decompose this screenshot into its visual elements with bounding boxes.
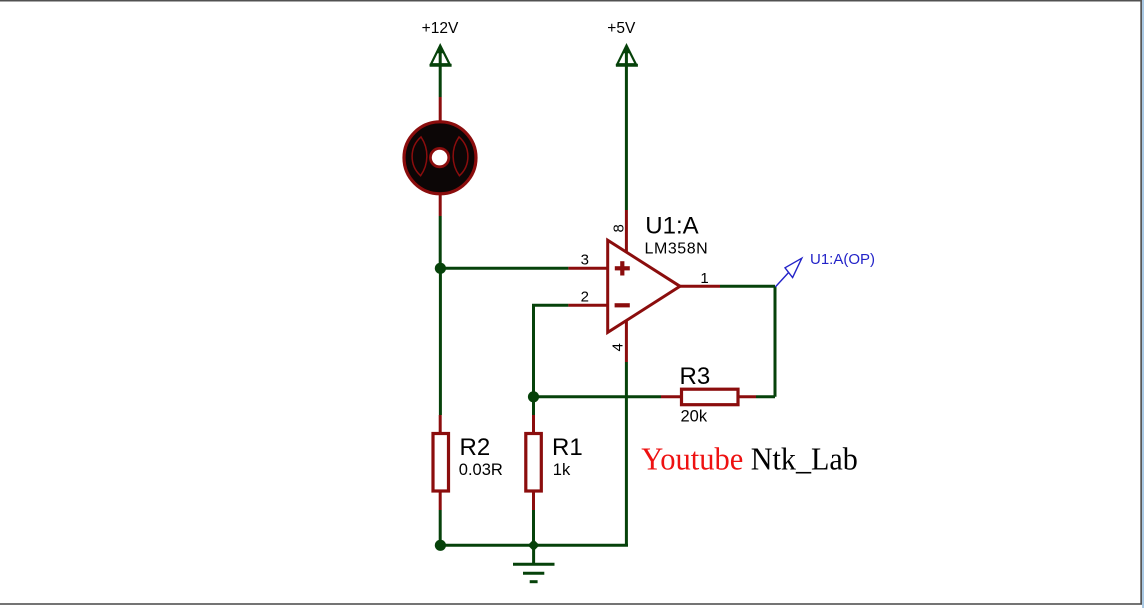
svg-text:0.03R: 0.03R xyxy=(459,461,503,479)
svg-text:R1: R1 xyxy=(552,434,583,461)
svg-text:U1:A: U1:A xyxy=(645,212,698,239)
ground symbol xyxy=(513,545,555,581)
wire rail to R1 bottom xyxy=(532,510,535,545)
R3 left pin xyxy=(661,395,681,398)
svg-text:Youtube: Youtube xyxy=(641,441,743,477)
R1 bottom pin xyxy=(532,491,535,510)
pin 8 stub xyxy=(625,210,628,252)
R3 right pin xyxy=(739,395,757,398)
wire output corner vertical xyxy=(774,286,777,397)
power +5V symbol xyxy=(616,45,638,210)
svg-text:1: 1 xyxy=(700,270,708,287)
svg-text:+12V: +12V xyxy=(422,20,459,37)
wire output horizontal xyxy=(720,285,775,288)
junction at rail mid (533.5,546) xyxy=(528,539,540,551)
wire R2 to ground rail xyxy=(439,510,442,545)
wire +12V to motor (pin stub) xyxy=(439,97,442,121)
wire node A to op-amp pin 3 xyxy=(440,267,568,270)
R2 bottom pin xyxy=(439,491,442,510)
resistor R3 xyxy=(682,389,739,405)
svg-text:3: 3 xyxy=(581,252,589,269)
node B junction (533.5,396.5) xyxy=(528,391,539,402)
op-amp + input mark xyxy=(615,261,630,275)
wire motor to node A xyxy=(439,216,442,268)
pin 3 stub xyxy=(568,267,609,270)
svg-text:2: 2 xyxy=(581,288,589,305)
pin 4 stub xyxy=(625,320,628,362)
wire R3 to output corner xyxy=(756,395,775,398)
output terminal arrow (blue) xyxy=(775,258,802,287)
pin 1 stub xyxy=(679,285,720,288)
svg-text:8: 8 xyxy=(611,224,628,232)
op-amp - input mark xyxy=(615,303,630,307)
svg-text:U1:A(OP): U1:A(OP) xyxy=(810,251,875,268)
svg-text:Ntk_Lab: Ntk_Lab xyxy=(751,441,858,477)
junction at rail left (440,546) xyxy=(435,540,446,551)
R1 top pin xyxy=(532,415,535,433)
wire corner to pin 2 xyxy=(532,304,568,307)
motor M1 xyxy=(404,122,476,194)
wire node B to R3 xyxy=(534,395,662,398)
svg-text:LM358N: LM358N xyxy=(645,241,709,258)
wire node B up to op-amp pin 2 corner xyxy=(532,305,535,397)
svg-text:20k: 20k xyxy=(681,407,708,425)
svg-text:R2: R2 xyxy=(460,434,491,461)
wire R1 top to node B xyxy=(532,397,535,415)
R2 top pin xyxy=(439,415,442,433)
wire node A down to R2 xyxy=(439,268,442,415)
svg-text:+5V: +5V xyxy=(607,20,636,37)
resistor R1 xyxy=(526,434,542,492)
svg-text:R3: R3 xyxy=(680,363,711,390)
op-amp U1 triangle xyxy=(608,240,680,332)
wire motor bottom pin xyxy=(439,195,442,217)
wire pin 4 to ground rail xyxy=(625,362,628,545)
pin 2 stub xyxy=(568,304,609,307)
resistor R2 xyxy=(433,434,449,492)
node A junction (440,268) xyxy=(435,263,446,274)
svg-text:1k: 1k xyxy=(553,461,571,479)
power +12V symbol xyxy=(430,45,452,97)
ground rail wire xyxy=(440,544,628,547)
frame (decorative) xyxy=(0,0,1142,2)
svg-text:4: 4 xyxy=(610,343,627,351)
